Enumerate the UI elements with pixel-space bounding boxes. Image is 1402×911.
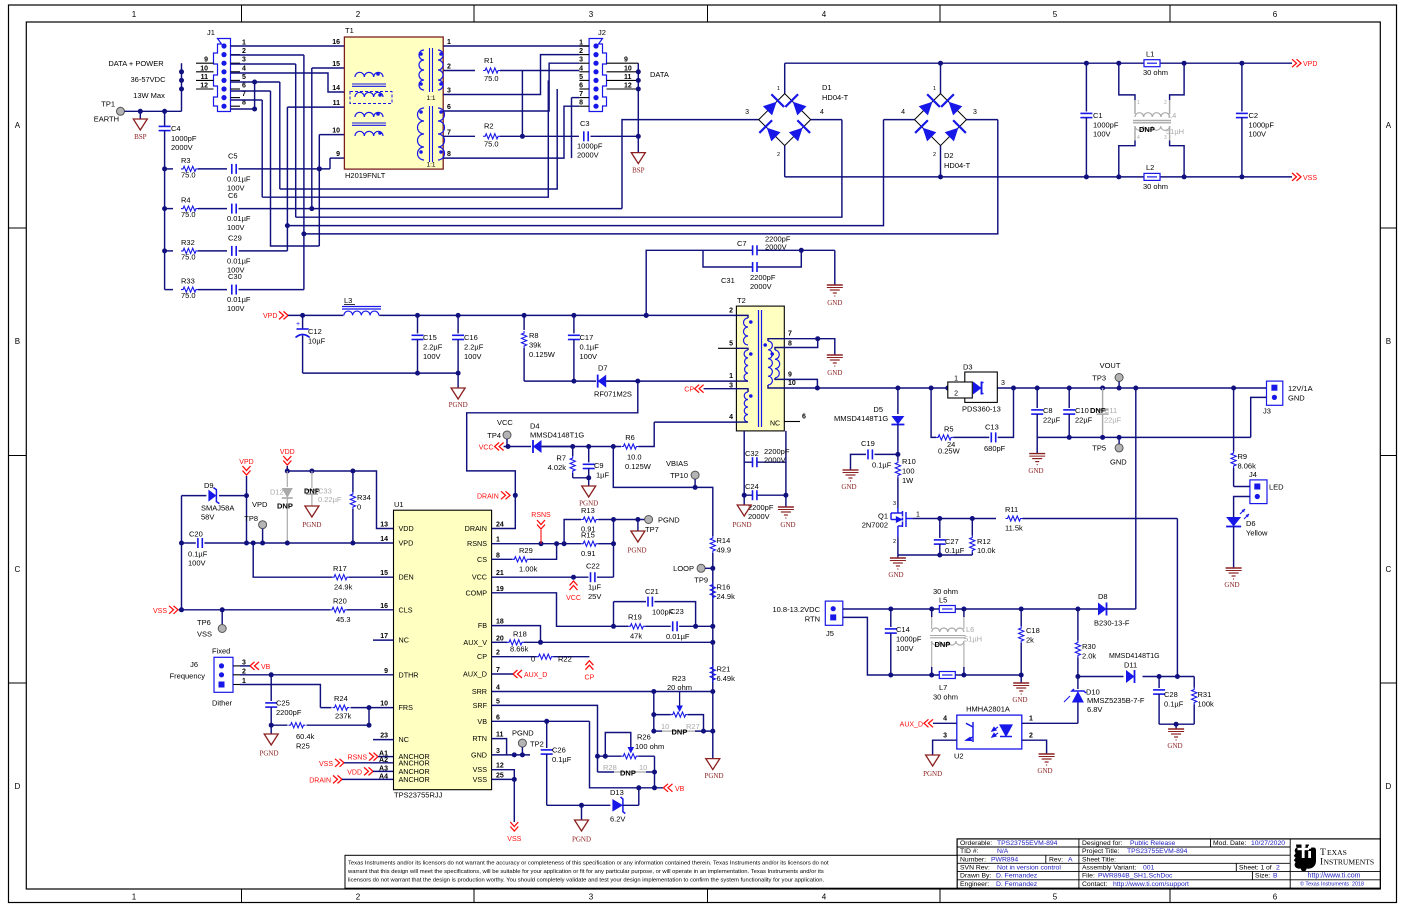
svg-text:3: 3 <box>589 10 594 19</box>
svg-text:EARTH: EARTH <box>94 115 119 124</box>
svg-text:AUX_D: AUX_D <box>900 722 923 729</box>
svg-text:21: 21 <box>496 570 504 577</box>
svg-text:DRAIN: DRAIN <box>465 524 487 533</box>
svg-text:6.2V: 6.2V <box>610 815 625 824</box>
svg-text:Sheet: 1: Sheet: 1 <box>1239 865 1265 872</box>
svg-text:4: 4 <box>242 65 246 72</box>
svg-text:D. Fernandez: D. Fernandez <box>996 873 1038 880</box>
svg-text:L1: L1 <box>1146 50 1154 59</box>
svg-text:1:1: 1:1 <box>426 95 435 102</box>
svg-text:R26: R26 <box>637 733 651 742</box>
wire left VSS bus <box>181 496 183 610</box>
svg-text:7: 7 <box>496 667 500 674</box>
svg-text:PGND: PGND <box>572 836 591 844</box>
svg-text:U1: U1 <box>394 500 404 509</box>
svg-text:9: 9 <box>788 371 792 378</box>
svg-text:U2: U2 <box>954 752 964 761</box>
svg-text:14: 14 <box>380 536 388 543</box>
svg-text:10: 10 <box>332 128 340 135</box>
svg-text:2: 2 <box>496 650 500 657</box>
svg-text:R18: R18 <box>513 630 527 639</box>
svg-text:R21: R21 <box>717 665 731 674</box>
svg-text:1µF: 1µF <box>588 583 601 592</box>
svg-text:GND: GND <box>827 369 842 377</box>
resistor R11 <box>1006 516 1023 521</box>
svg-text:14: 14 <box>332 85 340 92</box>
wire VCC row 2 <box>542 446 622 448</box>
svg-text:MMSZ5235B-7-F: MMSZ5235B-7-F <box>1087 696 1145 705</box>
svg-text:MMSD4148T1G: MMSD4148T1G <box>530 431 584 440</box>
svg-text:2000V: 2000V <box>750 282 772 291</box>
wire sense vertical <box>613 520 615 578</box>
svg-text:PGND: PGND <box>512 729 534 738</box>
inductor L4 DNP <box>1119 63 1135 100</box>
svg-text:6: 6 <box>1273 893 1278 902</box>
resistor R1 <box>443 70 475 72</box>
wire VPD flag stem <box>246 476 248 496</box>
svg-text:C13: C13 <box>985 423 999 432</box>
svg-text:5: 5 <box>242 74 246 81</box>
svg-text:20 ohm: 20 ohm <box>667 683 692 692</box>
svg-text:1: 1 <box>132 893 137 902</box>
svg-text:C32: C32 <box>745 449 759 458</box>
wire U2 pin4 <box>933 722 957 724</box>
svg-text:100V: 100V <box>580 352 598 361</box>
svg-text:3: 3 <box>973 109 977 116</box>
wire T2.9 T2.10 output <box>784 379 817 388</box>
svg-text:RSNS: RSNS <box>348 755 368 762</box>
svg-text:4: 4 <box>822 10 827 19</box>
wire SRF row <box>492 705 598 772</box>
svg-text:51µH: 51µH <box>964 635 982 644</box>
svg-text:DNP: DNP <box>672 728 688 737</box>
svg-text:GND: GND <box>1012 696 1027 704</box>
svg-text:2000V: 2000V <box>171 143 193 152</box>
svg-text:D1: D1 <box>822 83 832 92</box>
bridge rectifier D1 <box>759 94 811 146</box>
diode D9 SMAJ58A <box>182 495 207 497</box>
svg-text:1: 1 <box>1029 716 1033 723</box>
svg-text:AUX_D: AUX_D <box>524 672 547 679</box>
wire D9 to VPD net <box>246 496 248 543</box>
svg-text:45.3: 45.3 <box>336 615 351 624</box>
net flag VB J6 <box>250 662 255 670</box>
resistor R24 <box>332 703 350 712</box>
svg-text:4: 4 <box>579 65 583 72</box>
svg-text:0.125W: 0.125W <box>625 462 652 471</box>
wire TP1 to J1 <box>125 110 182 112</box>
svg-text:2: 2 <box>933 152 936 158</box>
svg-text:1.00k: 1.00k <box>519 565 538 574</box>
svg-text:C31: C31 <box>721 276 735 285</box>
test point TP1 <box>117 107 125 115</box>
svg-text:2N7002: 2N7002 <box>862 521 888 530</box>
svg-text:1µF: 1µF <box>596 471 609 480</box>
svg-text:10: 10 <box>639 763 647 772</box>
svg-text:24: 24 <box>496 522 504 529</box>
svg-text:47k: 47k <box>630 632 642 641</box>
svg-text:R2: R2 <box>484 122 494 131</box>
svg-text:TPS23755EVM-894: TPS23755EVM-894 <box>997 840 1058 847</box>
resistor R22 CP <box>492 656 537 658</box>
svg-text:C11: C11 <box>1104 406 1117 415</box>
svg-text:10/27/2020: 10/27/2020 <box>1251 840 1285 847</box>
svg-text:PGND: PGND <box>704 772 723 780</box>
svg-text:MMSD4148T1G: MMSD4148T1G <box>834 414 888 423</box>
ground GND C24 <box>785 495 787 507</box>
svg-text:1000pF: 1000pF <box>577 142 603 151</box>
svg-text:R30: R30 <box>1082 642 1096 651</box>
net flag VSS right <box>1292 173 1297 181</box>
svg-text:VSS: VSS <box>153 608 167 615</box>
svg-text:C14: C14 <box>896 625 910 634</box>
resistor R5 <box>936 435 953 440</box>
svg-text:NC: NC <box>399 636 409 645</box>
svg-text:R1: R1 <box>484 56 494 65</box>
wire VOUT main rail <box>817 387 1266 389</box>
svg-text:C4: C4 <box>171 124 181 133</box>
transistor Q1 2N7002 <box>891 508 912 537</box>
svg-text:VCC: VCC <box>497 418 513 427</box>
net flag VCC up <box>570 581 578 586</box>
TI logo <box>1294 845 1374 872</box>
svg-text:Q1: Q1 <box>878 512 888 521</box>
connector J3 <box>1267 381 1283 405</box>
svg-text:VOUT: VOUT <box>1100 361 1121 370</box>
wire FRS row <box>320 707 393 709</box>
svg-text:0.01µF: 0.01µF <box>666 632 690 641</box>
capacitor C10 <box>1068 388 1070 408</box>
svg-text:24.9k: 24.9k <box>334 583 353 592</box>
svg-text:2018: 2018 <box>1352 882 1364 888</box>
wire VSS bottom rail <box>785 176 1292 178</box>
svg-text:19: 19 <box>496 586 504 593</box>
svg-text:0.91: 0.91 <box>581 525 596 534</box>
wire GND row <box>1037 436 1251 438</box>
svg-text:C21: C21 <box>645 587 659 596</box>
power ground PGND filter <box>457 373 459 388</box>
svg-text:B: B <box>1386 337 1391 346</box>
svg-text:D. Fernandez: D. Fernandez <box>996 881 1038 888</box>
resistor R21 <box>710 665 715 682</box>
svg-text:Fixed: Fixed <box>212 647 230 656</box>
svg-text:2: 2 <box>1029 733 1033 740</box>
test point TP8 <box>259 521 267 529</box>
svg-text:Rev:: Rev: <box>1049 856 1063 863</box>
svg-text:PGND: PGND <box>658 516 680 525</box>
capacitor C7 <box>752 245 754 255</box>
svg-text:6: 6 <box>1273 10 1278 19</box>
wire R5 C13 snubber <box>931 388 936 437</box>
svg-text:R31: R31 <box>1198 690 1212 699</box>
svg-text:D2: D2 <box>944 151 954 160</box>
svg-text:EXAS: EXAS <box>1327 848 1347 857</box>
svg-text:C30: C30 <box>228 272 242 281</box>
capacitor C16 <box>457 315 459 333</box>
wire D2 top <box>940 63 942 93</box>
wire CP to T2.3 <box>704 388 737 390</box>
svg-text:2000V: 2000V <box>577 151 599 160</box>
svg-text:2: 2 <box>579 48 583 55</box>
svg-text:100V: 100V <box>896 644 914 653</box>
svg-text:C9: C9 <box>594 461 604 470</box>
svg-text:TPS23755RJJ: TPS23755RJJ <box>394 791 443 800</box>
svg-text:4.02k: 4.02k <box>548 463 567 472</box>
svg-text:C: C <box>15 565 21 574</box>
svg-text:CLS: CLS <box>399 605 413 614</box>
svg-text:2.2µF: 2.2µF <box>464 343 484 352</box>
diode D11 <box>1124 669 1142 684</box>
svg-text:CP: CP <box>684 387 694 394</box>
svg-text:8: 8 <box>447 151 451 158</box>
svg-text:D5: D5 <box>873 405 883 414</box>
svg-text:22µF: 22µF <box>1043 416 1061 425</box>
svg-text:3: 3 <box>1001 380 1005 387</box>
svg-text:VSS: VSS <box>319 761 333 768</box>
svg-text:R32: R32 <box>181 238 195 247</box>
svg-text:1: 1 <box>496 537 500 544</box>
svg-text:VCC: VCC <box>566 595 581 602</box>
svg-text:100V: 100V <box>464 352 482 361</box>
resistor R3 <box>165 168 173 170</box>
resistor C18 2k <box>1020 609 1022 626</box>
test point TP3 VOUT <box>1115 374 1123 382</box>
svg-text:VDD: VDD <box>399 524 414 533</box>
svg-text:25: 25 <box>496 772 504 779</box>
connector J2 <box>589 39 606 112</box>
svg-text:4: 4 <box>820 109 824 116</box>
svg-text:B: B <box>15 337 20 346</box>
svg-text:1: 1 <box>916 512 920 519</box>
svg-text:MMSD4148T1G: MMSD4148T1G <box>1109 653 1160 660</box>
svg-text:10: 10 <box>380 701 388 708</box>
svg-text:0.01µF: 0.01µF <box>227 214 251 223</box>
capacitor C27 <box>939 519 941 539</box>
svg-text:Project Title:: Project Title: <box>1082 848 1120 855</box>
capacitor C6 <box>231 204 233 214</box>
svg-text:R7: R7 <box>556 454 566 463</box>
svg-text:R6: R6 <box>625 433 635 442</box>
svg-text:D13: D13 <box>610 788 624 797</box>
svg-text:R5: R5 <box>944 425 954 434</box>
svg-text:100V: 100V <box>227 223 245 232</box>
svg-text:GND: GND <box>1167 742 1182 750</box>
svg-text:D4: D4 <box>530 422 540 431</box>
svg-text:R16: R16 <box>717 583 731 592</box>
svg-text:2000V: 2000V <box>765 243 787 252</box>
svg-text:Dither: Dither <box>212 699 233 708</box>
optocoupler U2 HMHA2801A <box>957 715 1022 749</box>
svg-text:Drawn By:: Drawn By: <box>960 873 991 880</box>
svg-text:2: 2 <box>893 539 896 545</box>
svg-text:4: 4 <box>1137 135 1140 141</box>
svg-text:R22: R22 <box>558 655 572 664</box>
capacitor C28 <box>1158 677 1160 689</box>
wire VB net <box>654 756 656 788</box>
resistor R4 <box>165 208 173 210</box>
svg-text:Size:: Size: <box>1255 873 1270 880</box>
svg-text:5: 5 <box>496 698 500 705</box>
svg-text:7: 7 <box>788 331 792 338</box>
disclaimer text block <box>345 855 957 888</box>
capacitor C26 <box>546 721 548 748</box>
svg-text:H2019FNLT: H2019FNLT <box>345 171 386 180</box>
svg-text:6: 6 <box>579 83 583 90</box>
test point TP6 <box>221 610 223 625</box>
wire C7 branch <box>646 250 752 315</box>
svg-text:LOOP: LOOP <box>673 564 694 573</box>
svg-text:FB: FB <box>478 621 487 630</box>
wire D1 bottom <box>784 146 786 177</box>
svg-text:49.9: 49.9 <box>717 546 732 555</box>
svg-text:0.1µF: 0.1µF <box>872 461 892 470</box>
wire Q1 gate row <box>912 518 996 520</box>
svg-text:9: 9 <box>336 151 340 158</box>
resistor R23 20 ohm <box>653 692 655 732</box>
wire D2 left arm <box>884 119 915 121</box>
svg-text:HD04-T: HD04-T <box>822 93 849 102</box>
svg-text:C23: C23 <box>670 607 684 616</box>
svg-text:2: 2 <box>242 48 246 55</box>
svg-text:CS: CS <box>477 555 487 564</box>
svg-text:1: 1 <box>729 373 733 380</box>
wire Q1 gnd row <box>898 554 972 556</box>
wire J6 pin1 to FRS <box>240 685 320 708</box>
transformer T2 <box>736 306 784 431</box>
svg-text:J3: J3 <box>1263 407 1271 416</box>
svg-text:TP4: TP4 <box>487 431 501 440</box>
svg-text:C24: C24 <box>745 482 759 491</box>
svg-text:SMAJ58A: SMAJ58A <box>201 504 234 513</box>
resistor R8 <box>523 315 525 330</box>
wire D1 top <box>784 63 786 93</box>
svg-text:AUX_V: AUX_V <box>463 638 487 647</box>
svg-text:C25: C25 <box>276 699 290 708</box>
capacitor C8 <box>1036 388 1038 408</box>
svg-text:20: 20 <box>496 635 504 642</box>
svg-text:8: 8 <box>242 100 246 107</box>
svg-text:R27: R27 <box>686 722 700 731</box>
svg-text:BSP: BSP <box>134 133 147 141</box>
svg-text:GND: GND <box>1037 767 1052 775</box>
connector J6 <box>214 657 233 692</box>
svg-text:1000pF: 1000pF <box>1093 121 1119 130</box>
net flag CP up <box>585 661 593 666</box>
svg-text:http://www.ti.com/support: http://www.ti.com/support <box>1113 881 1189 888</box>
svg-text:0.01µF: 0.01µF <box>227 257 251 266</box>
svg-text:C12: C12 <box>308 327 322 336</box>
svg-text:VSS: VSS <box>1303 175 1317 182</box>
ground GND C7 <box>834 250 836 285</box>
svg-text:9: 9 <box>624 57 628 64</box>
svg-text:3: 3 <box>579 57 583 64</box>
svg-text:J1: J1 <box>207 28 215 37</box>
svg-text:7: 7 <box>579 91 583 98</box>
wire filter return <box>303 372 459 374</box>
wire VSS row CLS <box>179 609 330 611</box>
wire long horizontals <box>280 89 557 189</box>
svg-text:0.25W: 0.25W <box>938 447 961 456</box>
svg-text:8.66k: 8.66k <box>510 645 529 654</box>
svg-text:GND: GND <box>471 750 487 759</box>
svg-text:12V/1A: 12V/1A <box>1288 384 1313 393</box>
svg-text:237k: 237k <box>335 712 352 721</box>
wire D2 bottom <box>940 146 942 177</box>
transformer T1 <box>344 37 444 169</box>
wire D8 feedback vertical <box>1135 388 1137 609</box>
svg-text:75.0: 75.0 <box>181 171 196 180</box>
svg-text:C28: C28 <box>1164 690 1178 699</box>
svg-text:Yellow: Yellow <box>1246 529 1268 538</box>
svg-text:C1: C1 <box>1093 111 1103 120</box>
resistor R2 <box>443 135 475 137</box>
svg-text:R13: R13 <box>581 506 595 515</box>
svg-text:10: 10 <box>624 65 632 72</box>
svg-text:2: 2 <box>729 308 733 315</box>
svg-text:7: 7 <box>447 129 451 136</box>
resistor R6 <box>621 444 638 449</box>
svg-text:11: 11 <box>496 732 504 739</box>
svg-text:18: 18 <box>496 619 504 626</box>
svg-text:100: 100 <box>902 467 915 476</box>
inductor L3 <box>344 311 379 319</box>
svg-text:2: 2 <box>356 10 361 19</box>
svg-text:C: C <box>1386 565 1392 574</box>
svg-text:15: 15 <box>380 570 388 577</box>
svg-text:R19: R19 <box>628 613 642 622</box>
wire J1 left pins bus <box>181 63 183 111</box>
svg-text:2: 2 <box>954 391 958 398</box>
svg-text:3: 3 <box>943 733 947 740</box>
test point TP7 PGND <box>645 516 653 524</box>
resistor R27 DNP <box>654 730 662 732</box>
svg-text:11: 11 <box>624 74 632 81</box>
svg-text:7: 7 <box>242 91 246 98</box>
svg-text:100k: 100k <box>1198 700 1215 709</box>
resistor R29 CS <box>492 558 513 560</box>
wire J3 pin2 to gnd row <box>1251 397 1267 437</box>
capacitor C4 <box>164 111 166 126</box>
svg-text:File:: File: <box>1082 873 1095 880</box>
diode D5 <box>897 388 899 414</box>
svg-text:3: 3 <box>242 57 246 64</box>
svg-text:D6: D6 <box>1246 519 1256 528</box>
wire T1.3 to J2.2 <box>443 55 579 95</box>
svg-text:1: 1 <box>1137 100 1140 106</box>
svg-text:1000pF: 1000pF <box>1249 121 1275 130</box>
svg-text:0.91: 0.91 <box>581 549 596 558</box>
svg-text:L3: L3 <box>344 296 352 305</box>
svg-text:VPD: VPD <box>263 313 277 320</box>
svg-text:1: 1 <box>447 39 451 46</box>
capacitor C11 DNP <box>1102 388 1104 408</box>
svg-text:TID #:: TID #: <box>960 848 979 855</box>
svg-text:22µF: 22µF <box>1104 416 1122 425</box>
svg-text:13: 13 <box>380 522 388 529</box>
diode D7 <box>598 375 607 388</box>
svg-text:10: 10 <box>661 722 669 731</box>
svg-text:2: 2 <box>777 152 780 158</box>
resistor R19 <box>614 625 629 627</box>
svg-text:VSS: VSS <box>197 630 212 639</box>
svg-text:VSS: VSS <box>507 836 521 843</box>
svg-text:0.1µF: 0.1µF <box>1164 700 1184 709</box>
svg-text:0.125W: 0.125W <box>529 350 556 359</box>
svg-text:R8: R8 <box>529 331 539 340</box>
wire T1.1 to J2.1 <box>443 45 589 47</box>
chassis ground BSP 2 <box>631 153 645 164</box>
svg-text:VSS: VSS <box>473 765 488 774</box>
